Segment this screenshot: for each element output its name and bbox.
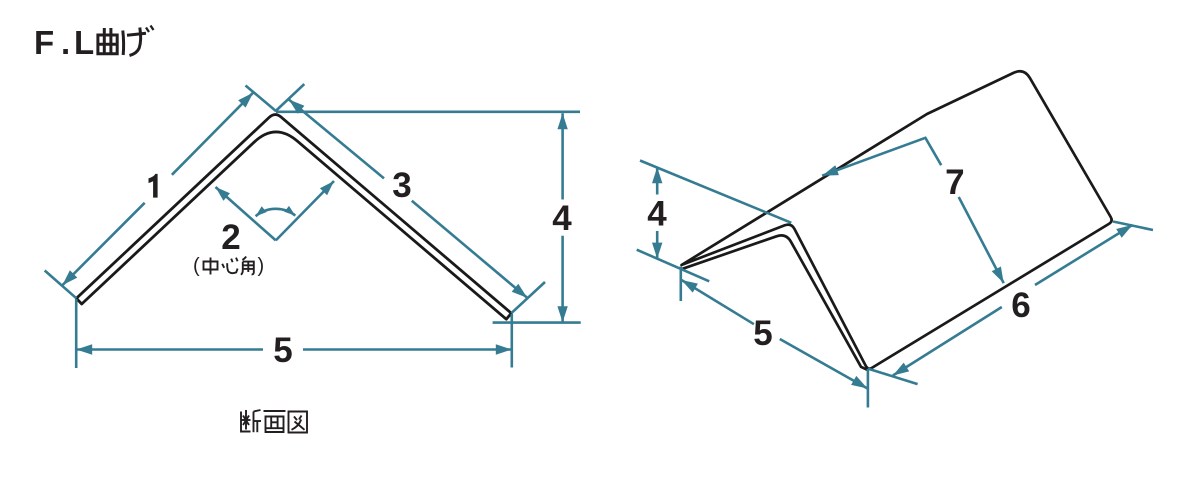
dim 1 tick at sheet tip (45, 271, 77, 299)
3D dim 4 bottom extension (637, 250, 710, 282)
3D bent sheet outline (682, 71, 1112, 368)
dim 1 arrow lower (62, 270, 77, 285)
3D dim 5 left extension (679, 267, 682, 302)
svg-text:.: . (61, 24, 70, 61)
dim 5 left extension line (75, 299, 78, 368)
kanji 図 (289, 412, 308, 433)
dim 4 bottom extension line (493, 321, 581, 324)
center-angle arc arrow right (284, 206, 295, 216)
svg-text:F: F (34, 24, 54, 61)
3D dim 6 upper tick (1113, 222, 1153, 231)
3D dim 4 line upper (656, 167, 659, 194)
3D dim 6 line upper segment (1035, 225, 1133, 285)
svg-text:(: ( (193, 255, 200, 277)
dim 3 arrow lower (512, 284, 528, 298)
leader 7 lower arrow (992, 267, 1004, 284)
dim 4 top extension line (276, 111, 580, 114)
dim 4 line lower segment (561, 236, 564, 322)
dim 4 arrow up (557, 113, 567, 129)
dim 3 line lower segment (412, 201, 528, 298)
center-angle arc (256, 209, 296, 216)
3D dim 4 line lower (656, 231, 659, 259)
svg-text:6: 6 (1011, 286, 1030, 325)
kanji 中 (204, 258, 218, 275)
dim 5 right extension line (510, 314, 513, 368)
leader 7 lower line (959, 197, 1004, 283)
3D dim 5 arrow lower (851, 376, 867, 389)
svg-text:): ) (258, 255, 265, 277)
center-angle V right leg (276, 181, 334, 240)
title kanji 曲 (97, 28, 119, 54)
3D dim 6 lower tick (868, 369, 918, 385)
dim 5 arrow right (496, 344, 512, 354)
3D dim 6 arrow upper (1116, 225, 1132, 238)
3D sheet inner edge (683, 235, 869, 370)
3D dim 5 arrow upper (682, 280, 698, 293)
svg-text:L: L (74, 24, 94, 61)
3D dim 6 line lower segment (893, 307, 1002, 376)
center-angle arc arrow left (256, 206, 267, 216)
kanji 心 (222, 258, 237, 274)
svg-text:3: 3 (392, 166, 411, 205)
svg-text:4: 4 (647, 195, 667, 234)
dim 1 tick at apex (246, 86, 277, 112)
dim 4 line upper segment (561, 113, 564, 199)
dim 1 line upper segment (172, 93, 253, 175)
svg-text:7: 7 (945, 163, 964, 202)
dim 5 line right segment (303, 348, 512, 351)
leader 7 upper polyline (822, 138, 941, 176)
dim 1 arrow upper (238, 93, 253, 108)
3D dim 4 top extension (640, 161, 791, 223)
svg-text:4: 4 (552, 199, 572, 238)
dim 3 tick at sheet tip (511, 282, 545, 313)
bent sheet cross-section (76, 115, 511, 320)
label 1 (149, 174, 158, 198)
dim 5 arrow left (76, 344, 92, 354)
center-angle arrow left (216, 187, 231, 201)
center-angle V left leg (216, 187, 276, 240)
dim 3 line upper segment (289, 100, 384, 179)
svg-text:5: 5 (753, 314, 772, 353)
dim 1 line lower segment (62, 203, 144, 285)
kanji 断 (241, 410, 261, 432)
kanji 角 (241, 257, 254, 275)
svg-text:2: 2 (221, 218, 240, 257)
kanji 面 (264, 411, 286, 432)
dim 4 arrow down (557, 306, 567, 322)
3D dim 4 arrow up (652, 167, 662, 183)
3D dim 5 line lower segment (780, 339, 868, 389)
dim 3 tick at apex (276, 84, 304, 110)
3D dim 5 right extension (867, 369, 870, 408)
3D dim 4 arrow down (652, 243, 662, 259)
3D dim 6 arrow lower (893, 363, 909, 376)
dim 5 line left segment (76, 348, 263, 351)
center-angle arrow right (320, 181, 334, 195)
dim 3 arrow upper (289, 100, 305, 114)
svg-text:5: 5 (273, 331, 292, 370)
3D dim 5 line upper segment (682, 280, 754, 324)
title kana げ (123, 26, 154, 56)
leader 7 upper arrow (822, 165, 839, 175)
